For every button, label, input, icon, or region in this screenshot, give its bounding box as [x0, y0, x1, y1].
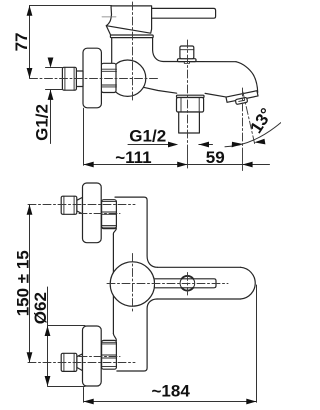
dimension ~111 extension line at wall plane [83, 108, 85, 165]
dimension O62 leader and arrows [47, 287, 49, 386]
wall flange escutcheon (side view) [83, 48, 101, 108]
handle collar [110, 35, 153, 38]
svg-text:G1/2: G1/2 [129, 126, 166, 145]
top G1/2 nut (plan) [61, 196, 77, 214]
centerline bottom connection axis (plan) [28, 362, 135, 364]
centerline lever axis horizontal (plan) [107, 283, 228, 285]
dimension ~184 extension left (wall plane) [83, 388, 85, 403]
body slab [113, 197, 157, 371]
dimension 150 +/- 15 [29, 205, 31, 363]
spout nose curve [236, 62, 258, 93]
arrow at spout axis (59 right, pointing left) [242, 162, 252, 168]
centerline vertical axis of bottom outlet [187, 40, 189, 148]
svg-text:150 ± 15: 150 ± 15 [13, 250, 32, 316]
bottom eccentric neck (plan) [77, 354, 83, 371]
slab step above bottom hex [113, 334, 116, 341]
shower outlet washer [177, 95, 205, 97]
slab step below top hex [113, 229, 116, 234]
aerator face plate tilted 13 deg [226, 91, 259, 107]
G1/2 leader with arrows at outlet pipe [128, 144, 168, 146]
cartridge body below collar [112, 38, 236, 64]
bottom G1/2 nut (plan) [61, 353, 77, 371]
diverter knob on top of body [178, 46, 197, 63]
spout axis tilted 13 deg [243, 92, 255, 144]
centerline bottom flange axis (plan) [79, 356, 120, 358]
svg-text:77: 77 [12, 32, 31, 51]
ball joint circle [109, 60, 145, 96]
centerline boss vertical (plan) [132, 254, 134, 314]
arrow at wall plane [84, 162, 94, 168]
solid continuation of outlet axis to dimension line [187, 148, 189, 168]
handle lever bar [152, 8, 216, 18]
centerline horizontal axis of wall connection [30, 78, 161, 80]
arrow at outlet axis [177, 162, 187, 168]
eccentric neck [76, 71, 83, 87]
centerline top flange axis (plan) [79, 213, 120, 215]
handle head lower wedge edge [106, 26, 110, 35]
dimension 77 [30, 6, 112, 78]
solid continuation of spout vertical reference [242, 148, 244, 171]
centerline diverter vertical (plan) [187, 273, 189, 296]
svg-text:G1/2: G1/2 [33, 104, 52, 141]
centerline vertical axis of cartridge/handle [132, 2, 134, 100]
shower outlet pipe G1/2 [179, 112, 200, 133]
bottom flange escutcheon (plan) [83, 326, 102, 386]
vertical reference line at spout outlet [242, 88, 244, 148]
dimension line ~111 / 59 [84, 164, 270, 166]
bottom hex nut (plan) [102, 340, 117, 369]
top eccentric neck (plan) [77, 197, 83, 214]
spout underside from washer to aerator [205, 93, 227, 97]
spout barrel bottom [157, 298, 241, 300]
svg-text:59: 59 [206, 148, 225, 167]
G1/2 extension lines (wall nut thread) [46, 68, 63, 144]
cartridge boss circle [110, 262, 154, 306]
svg-text:~184: ~184 [152, 382, 191, 401]
hex nut on wall flange (side view) [101, 63, 116, 92]
dimension line ~184 [84, 401, 257, 403]
spout nose semicircle [241, 267, 256, 299]
handle head [106, 6, 151, 33]
G1/2 wall nut [62, 67, 76, 90]
svg-text:Ø62: Ø62 [31, 292, 50, 324]
handle pivot tick [102, 16, 116, 18]
top flange escutcheon (plan) [83, 183, 102, 243]
spout underside from ball to outlet washer [144, 87, 177, 93]
lever bar (plan) [155, 279, 216, 288]
13 degree angle arc [225, 123, 281, 147]
dimension ~184 extension right (spout nose) [256, 285, 258, 402]
spout barrel top [158, 266, 241, 268]
shower outlet hex [177, 98, 204, 113]
diverter knob ellipse (plan) [180, 276, 195, 291]
top hex nut (plan) [102, 200, 117, 229]
svg-text:~111: ~111 [115, 148, 151, 167]
centerline top connection axis (plan) [28, 204, 135, 206]
svg-text:13°: 13° [246, 105, 276, 137]
